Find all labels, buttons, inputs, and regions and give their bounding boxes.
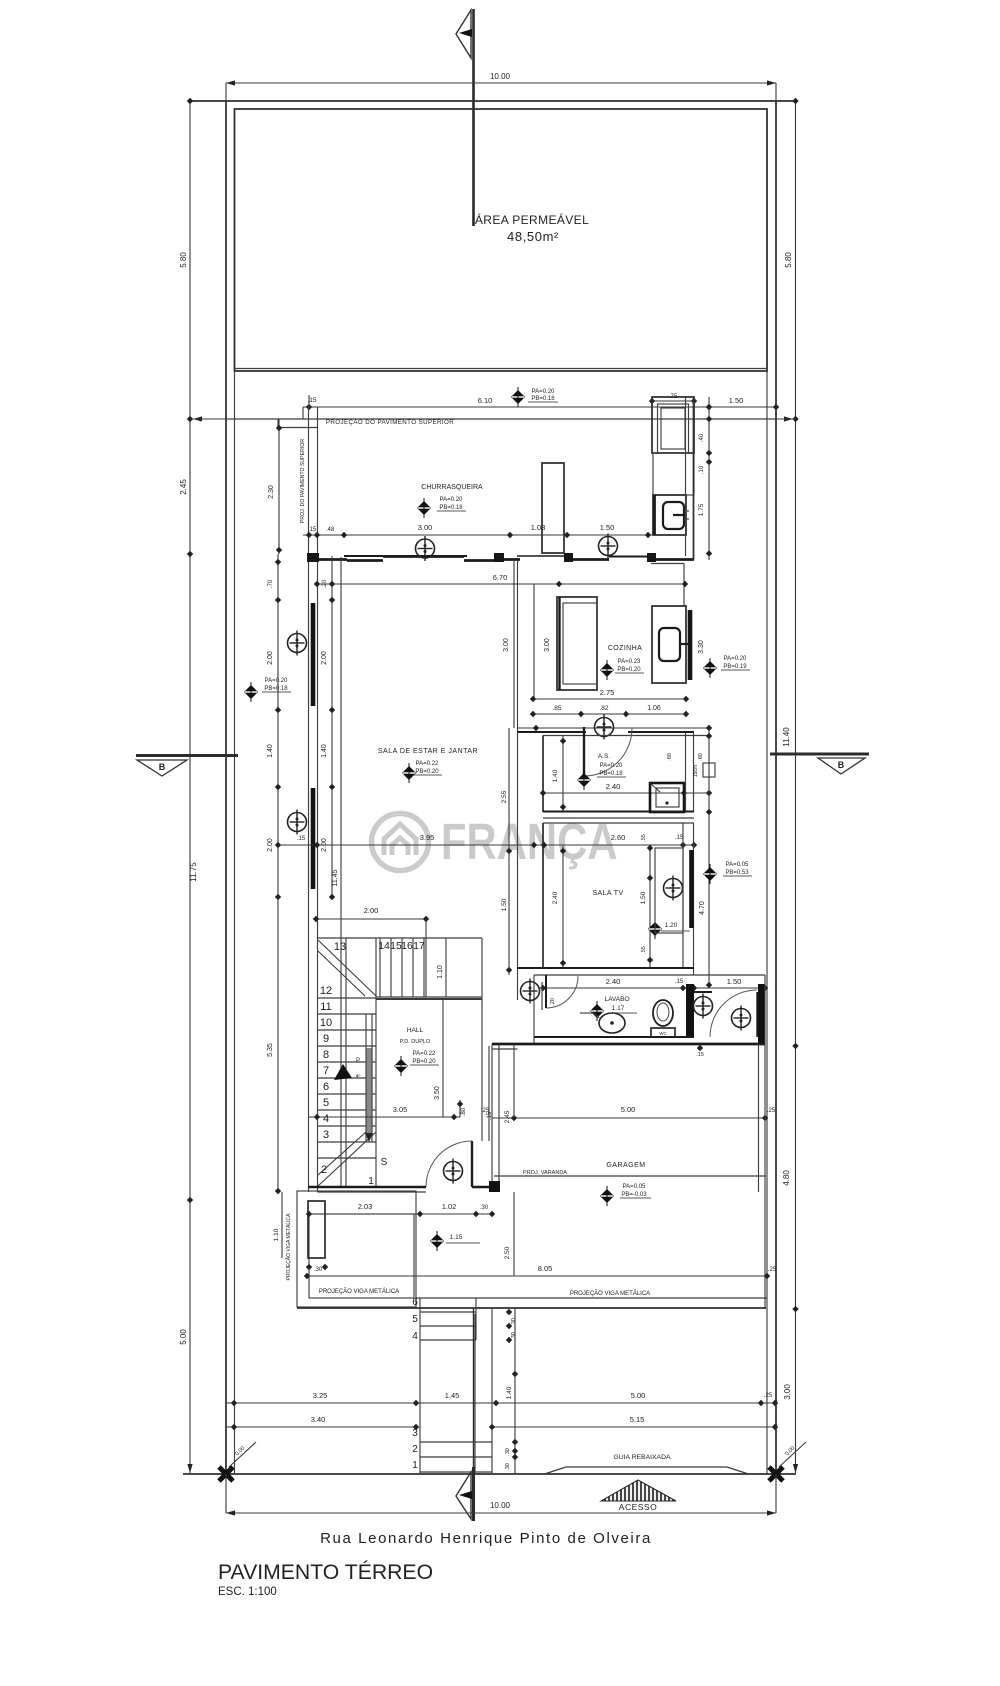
- top wall window sill: [344, 555, 467, 557]
- svg-text:2: 2: [412, 1444, 418, 1455]
- house left wall outer: [308, 560, 310, 1192]
- flag 1.15: [430, 1231, 444, 1251]
- svg-text:WC: WC: [659, 1031, 667, 1036]
- tv right wall: [682, 823, 684, 968]
- svg-text:.15: .15: [307, 397, 316, 404]
- flag tv floor: [648, 919, 662, 939]
- svg-text:GARAGEM: GARAGEM: [606, 1162, 645, 1169]
- property left edge: [225, 101, 227, 1474]
- flag PA top: [511, 387, 525, 407]
- svg-text:1.20: 1.20: [665, 922, 678, 929]
- driveway center line: [474, 1314, 476, 1473]
- svg-text:5.15: 5.15: [630, 1415, 645, 1424]
- flag cozinha: [600, 660, 614, 680]
- svg-text:.30: .30: [505, 1448, 511, 1456]
- garage pillar: [489, 1181, 500, 1192]
- svg-text:PB=0.18: PB=0.18: [439, 505, 463, 511]
- stair handrail: [367, 1048, 372, 1135]
- stair up arrow: [334, 1064, 352, 1080]
- svg-text:.10: .10: [699, 465, 705, 474]
- svg-text:3.95: 3.95: [420, 833, 435, 842]
- wall junction blobs: [307, 553, 319, 562]
- svg-text:3: 3: [323, 1129, 329, 1141]
- svg-text:FRANÇA: FRANÇA: [441, 813, 618, 870]
- stair right wall: [375, 938, 377, 1187]
- varanda inner rect: [309, 1214, 414, 1298]
- south arrow: [473, 1309, 475, 1521]
- svg-text:PA=0.23: PA=0.23: [618, 659, 641, 665]
- svg-text:.25: .25: [767, 1108, 776, 1114]
- flag PA right outside: [703, 658, 717, 678]
- dim 5.35 x278: [277, 897, 279, 1191]
- dim chain x332 mid: [331, 556, 333, 897]
- svg-text:2: 2: [321, 1164, 327, 1176]
- svg-text:PROJ. VARANDA: PROJ. VARANDA: [523, 1170, 567, 1176]
- dim 6.70 line: [317, 583, 685, 585]
- flag PA left outside: [244, 682, 258, 702]
- svg-text:3.00: 3.00: [783, 1384, 792, 1400]
- svg-text:Rua Leonardo Henrique Pinto: Rua Leonardo Henrique Pinto de Olveira: [320, 1530, 652, 1547]
- svg-text:11: 11: [320, 1001, 331, 1013]
- dim 11.45 vert: [340, 557, 342, 1187]
- right dim ticks: [792, 98, 798, 104]
- svg-text:5.35: 5.35: [267, 1043, 274, 1057]
- stair top line: [318, 937, 483, 939]
- ledge line left: [278, 427, 317, 429]
- property top edge: [190, 100, 796, 102]
- entry door leaf: [756, 992, 758, 1037]
- service lower room: [653, 495, 686, 535]
- entry right wall fill: [758, 984, 765, 1044]
- entry door arc: [710, 990, 757, 1037]
- top wall mid segment: [500, 558, 520, 561]
- house left wall inner: [317, 560, 319, 1192]
- svg-text:.80: .80: [461, 1107, 467, 1116]
- tv room top wall: [543, 822, 694, 824]
- svg-text:4º: 4º: [356, 1074, 361, 1080]
- varanda outer rect: [297, 1191, 416, 1307]
- dim row y535: [303, 534, 653, 536]
- svg-text:13: 13: [334, 941, 346, 953]
- hall top boundary: [376, 998, 482, 1000]
- svg-text:S: S: [381, 1157, 388, 1168]
- svg-text:3.00: 3.00: [544, 638, 551, 652]
- svg-text:6.70: 6.70: [493, 573, 508, 582]
- guia rebaixada trapezoid: [546, 1467, 747, 1474]
- svg-text:11.45: 11.45: [332, 869, 339, 886]
- svg-text:5.80: 5.80: [179, 252, 188, 268]
- property right edge: [775, 101, 777, 1474]
- svg-text:PROJEÇÃO DO PAVIMENTO SUPERIOR: PROJEÇÃO DO PAVIMENTO SUPERIOR: [326, 419, 454, 426]
- svg-text:1: 1: [412, 1460, 418, 1471]
- svg-text:5.80: 5.80: [784, 252, 793, 268]
- corner marker right: [769, 1467, 783, 1481]
- as right wall: [685, 732, 687, 812]
- flag lavabo: [590, 1001, 604, 1021]
- service room vessel: [661, 408, 685, 449]
- svg-text:17: 17: [413, 940, 425, 952]
- svg-text:P.D. DUPLO: P.D. DUPLO: [400, 1039, 431, 1045]
- as room top wall: [518, 731, 587, 733]
- svg-text:.85: .85: [552, 705, 561, 712]
- svg-text:.55: .55: [641, 946, 647, 954]
- svg-text:.25: .25: [764, 1393, 773, 1399]
- stair number column divider: [345, 938, 347, 1187]
- svg-text:4.80: 4.80: [782, 1170, 791, 1186]
- flag churrasqueira: [417, 498, 431, 518]
- svg-text:5: 5: [323, 1097, 329, 1109]
- svg-text:1.45: 1.45: [445, 1391, 460, 1400]
- svg-text:ESC. 1:100: ESC. 1:100: [218, 1586, 277, 1598]
- svg-text:9: 9: [323, 1033, 329, 1045]
- driveway edge lines: [491, 1309, 493, 1473]
- svg-text:1.17: 1.17: [612, 1005, 625, 1012]
- svg-text:2.75: 2.75: [600, 688, 615, 697]
- svg-text:2.00: 2.00: [364, 906, 379, 915]
- permeable area inner bottom: [235, 368, 768, 370]
- svg-text:4: 4: [412, 1331, 418, 1342]
- svg-text:3.25: 3.25: [313, 1391, 328, 1400]
- lavabo right wall fill: [686, 984, 694, 1037]
- dim row y714: [533, 713, 686, 715]
- svg-text:2.00: 2.00: [321, 651, 328, 665]
- tv window: [689, 850, 694, 928]
- svg-text:8.05: 8.05: [538, 1264, 553, 1273]
- svg-text:.25: .25: [768, 1267, 777, 1273]
- window marker circle top1: [416, 536, 435, 561]
- stair treads: [318, 997, 377, 999]
- svg-text:16: 16: [401, 940, 413, 952]
- dim .75 top: [652, 400, 694, 402]
- dim 10.00 top: [226, 72, 776, 101]
- svg-text:PROJEÇÃO VIGA METÁLICA: PROJEÇÃO VIGA METÁLICA: [319, 1288, 399, 1295]
- svg-text:11.40: 11.40: [782, 727, 791, 747]
- svg-text:.30: .30: [511, 1318, 517, 1326]
- svg-text:1.40: 1.40: [552, 769, 559, 782]
- svg-text:.30: .30: [480, 1205, 489, 1211]
- ext steps upper: [420, 1311, 476, 1313]
- svg-text:3: 3: [412, 1428, 418, 1439]
- svg-text:4: 4: [323, 1113, 329, 1125]
- dim .80 hall: [459, 1100, 461, 1117]
- svg-text:48,50m²: 48,50m²: [507, 229, 559, 244]
- svg-text:10.00: 10.00: [490, 72, 511, 81]
- svg-text:3.00: 3.00: [418, 523, 433, 532]
- lavabo door arc: [546, 976, 578, 1008]
- svg-text:2.00: 2.00: [267, 838, 274, 852]
- svg-text:4.70: 4.70: [699, 901, 706, 915]
- dim 3.00 cozinha: [533, 584, 535, 699]
- svg-text:1.10: 1.10: [437, 965, 444, 979]
- dim 8.05 row: [307, 1275, 767, 1277]
- inner fence right: [766, 109, 768, 1474]
- svg-text:B: B: [159, 762, 166, 772]
- dim 2.50 garage: [513, 1192, 515, 1276]
- service right wall: [685, 397, 687, 556]
- svg-text:1.40: 1.40: [267, 744, 274, 758]
- svg-text:HALL: HALL: [407, 1027, 424, 1034]
- dim row y728: [517, 727, 709, 729]
- svg-text:14: 14: [378, 940, 390, 952]
- svg-text:3.40: 3.40: [311, 1415, 326, 1424]
- churrasqueira chimney: [542, 463, 564, 553]
- dim 2.40 as row: [543, 792, 709, 794]
- service lower room wall: [653, 495, 656, 535]
- slab bottom line: [297, 1307, 766, 1309]
- dim 10.00 bottom: [226, 1512, 776, 1514]
- svg-text:2.40: 2.40: [552, 891, 559, 904]
- svg-text:10.00: 10.00: [490, 1501, 511, 1510]
- svg-text:PB=-0.03: PB=-0.03: [621, 1192, 647, 1198]
- svg-text:6: 6: [323, 1081, 329, 1093]
- lavabo left wall: [533, 975, 535, 1044]
- left window 2: [311, 788, 316, 889]
- svg-text:SALA DE ESTAR E JANTAR: SALA DE ESTAR E JANTAR: [378, 748, 478, 755]
- svg-text:PA=0.05: PA=0.05: [726, 862, 749, 868]
- service room inner: [658, 404, 689, 453]
- svg-text:1.10: 1.10: [273, 1228, 280, 1241]
- svg-text:1.50: 1.50: [727, 977, 742, 986]
- svg-text:1.50: 1.50: [501, 898, 508, 911]
- dim 2.00 stair: [316, 918, 426, 920]
- proj pavimento superior arrows: [193, 416, 202, 421]
- svg-text:10: 10: [320, 1017, 332, 1029]
- stair upper treads: [379, 938, 381, 997]
- stair lower diagonal: [318, 1132, 376, 1186]
- window marker circle top2: [599, 534, 618, 559]
- inner fence left: [234, 109, 236, 1474]
- svg-text:2.40: 2.40: [606, 782, 621, 791]
- kitchen sink counter: [652, 606, 686, 683]
- service room outer: [652, 397, 694, 453]
- flag PA tv outside: [703, 864, 717, 884]
- dim row y1214: [309, 1213, 492, 1215]
- dim chain 2.30 left: [278, 419, 280, 554]
- svg-text:1.40: 1.40: [506, 1386, 513, 1399]
- hall right wall upper: [481, 938, 483, 1001]
- svg-text:PB=0.18: PB=0.18: [531, 396, 555, 402]
- svg-text:.80: .80: [698, 753, 704, 761]
- as door arc: [584, 728, 632, 776]
- svg-text:12: 12: [320, 985, 332, 997]
- svg-text:PAVIMENTO TÉRREO: PAVIMENTO TÉRREO: [218, 1559, 433, 1584]
- svg-text:1.50: 1.50: [729, 396, 744, 405]
- left dim ticks: [187, 98, 193, 104]
- section marker B right: [770, 754, 869, 774]
- svg-text:1.40: 1.40: [321, 744, 328, 758]
- watermark logo: [372, 813, 618, 870]
- tv bottom wall: [518, 967, 695, 969]
- flag garagem: [600, 1186, 614, 1206]
- dim 1.50 x509: [508, 846, 510, 975]
- dim 2.40 tv: [562, 846, 564, 968]
- window marker hall door: [444, 1159, 463, 1184]
- dim 6.10 line: [303, 406, 709, 408]
- dim chain x709 top: [708, 397, 710, 560]
- dim 3.05 row: [309, 1116, 460, 1118]
- svg-text:2.00: 2.00: [267, 651, 274, 665]
- svg-text:PROJ. DO PAVIMENTO SUPERIOR: PROJ. DO PAVIMENTO SUPERIOR: [300, 439, 306, 523]
- dim 1.40 as: [562, 736, 564, 812]
- service room bottom sill: [651, 563, 684, 565]
- dim 2.55 x509: [508, 728, 510, 846]
- corner marker left: [219, 1467, 233, 1481]
- proj varanda line: [494, 1175, 766, 1177]
- svg-text:PA=0.22: PA=0.22: [413, 1051, 436, 1057]
- svg-text:.82: .82: [599, 705, 608, 712]
- svg-text:PA=0.20: PA=0.20: [724, 656, 747, 662]
- flag sala: [402, 763, 416, 783]
- svg-text:5.00: 5.00: [179, 1329, 188, 1345]
- svg-text:PB=0.18: PB=0.18: [599, 771, 623, 777]
- tv room left wall: [542, 823, 544, 968]
- svg-text:ACESSO: ACESSO: [619, 1502, 657, 1512]
- dim 1.10 front: [281, 1192, 283, 1258]
- svg-text:1.50: 1.50: [640, 891, 647, 904]
- garage right wall: [758, 1044, 760, 1192]
- svg-text:5.00: 5.00: [631, 1391, 646, 1400]
- svg-text:.48: .48: [326, 527, 335, 533]
- svg-text:1: 1: [368, 1176, 374, 1187]
- dim 1.10 stair: [445, 938, 447, 997]
- as room left wall: [542, 736, 544, 813]
- permeable area rect: [235, 109, 768, 371]
- as bottom wall: [543, 811, 694, 813]
- svg-text:6.10: 6.10: [478, 396, 493, 405]
- entry top wall: [694, 991, 712, 993]
- proj pavimento superior line: [226, 418, 776, 420]
- kitchen counter: [557, 597, 597, 690]
- as door leaf: [583, 727, 585, 777]
- svg-text:.15: .15: [696, 1052, 704, 1058]
- svg-text:1.02: 1.02: [442, 1202, 457, 1211]
- svg-text:3.05: 3.05: [393, 1105, 408, 1114]
- svg-text:PROJEÇÃO VIGA METÁLICA: PROJEÇÃO VIGA METÁLICA: [570, 1290, 650, 1297]
- dim 2.45 garage: [513, 1044, 515, 1118]
- svg-text:.15: .15: [297, 836, 306, 842]
- svg-text:COZINHA: COZINHA: [608, 645, 642, 652]
- svg-text:1.08: 1.08: [531, 523, 546, 532]
- svg-text:3.30: 3.30: [698, 640, 705, 654]
- svg-text:GUIA REBAIXADA: GUIA REBAIXADA: [613, 1454, 671, 1461]
- top wall left segment: [317, 558, 347, 561]
- svg-text:2.30: 2.30: [268, 485, 275, 499]
- top wall right segment: [569, 558, 609, 561]
- svg-text:2.03: 2.03: [358, 1202, 373, 1211]
- entry walls thin: [764, 975, 766, 1044]
- svg-text:2.45: 2.45: [504, 1110, 511, 1123]
- viga pillar: [308, 1201, 325, 1258]
- right dim chain line: [795, 101, 797, 1473]
- tv bench: [655, 848, 683, 933]
- dim chain x278 mid: [277, 554, 279, 897]
- dim 1.50 top right: [709, 406, 776, 408]
- service compartment: [653, 453, 694, 495]
- svg-text:PA=0.20: PA=0.20: [265, 678, 288, 684]
- svg-text:.30: .30: [511, 1332, 517, 1340]
- svg-text:LAVABO: LAVABO: [604, 996, 629, 1003]
- kitchen window: [688, 610, 693, 680]
- svg-text:1.06: 1.06: [647, 705, 661, 712]
- svg-text:.30: .30: [314, 1267, 323, 1273]
- svg-text:CHURRASQUEIRA: CHURRASQUEIRA: [421, 484, 483, 491]
- proj viga line: [416, 1297, 767, 1299]
- svg-text:PB=0.19: PB=0.19: [723, 664, 747, 670]
- svg-text:.70: .70: [268, 579, 274, 588]
- svg-text:2.45: 2.45: [179, 479, 188, 495]
- left dim chain line: [189, 101, 191, 1473]
- property bottom edge: [183, 1473, 796, 1475]
- ext steps lower: [420, 1441, 492, 1443]
- ext steps lower ticks: [512, 1439, 518, 1445]
- svg-text:2.60: 2.60: [611, 833, 626, 842]
- svg-text:PA=0.22: PA=0.22: [416, 761, 439, 767]
- svg-text:PB=0.20: PB=0.20: [617, 667, 641, 673]
- garage top wall: [492, 1043, 765, 1046]
- dim y845 left stub: [278, 844, 308, 846]
- laundry tank: [650, 783, 684, 812]
- window marker as door: [595, 715, 614, 740]
- svg-text:1.75: 1.75: [698, 503, 705, 516]
- sala right wall: [513, 560, 515, 728]
- svg-text:6: 6: [412, 1297, 418, 1308]
- dim chain tv window: [649, 846, 651, 968]
- svg-text:PB=0.20: PB=0.20: [412, 1059, 436, 1065]
- water tank fixture: [663, 502, 684, 529]
- svg-text:5: 5: [412, 1314, 418, 1325]
- svg-text:.80: .80: [667, 753, 673, 761]
- svg-text:PROJEÇÃO VIGA METÁLICA: PROJEÇÃO VIGA METÁLICA: [285, 1213, 292, 1281]
- svg-text:PA=0.20: PA=0.20: [600, 763, 623, 769]
- stair break diagonal: [318, 940, 376, 996]
- window marker left1: [288, 631, 307, 656]
- hall bottom wall: [309, 1186, 427, 1189]
- svg-text:3.00: 3.00: [503, 638, 510, 652]
- washbasin: [599, 1013, 625, 1033]
- svg-text:PB=0.18: PB=0.18: [264, 686, 288, 692]
- dim row y988 lavabo: [543, 987, 765, 989]
- north arrow: [456, 9, 474, 226]
- svg-text:.30: .30: [505, 1463, 511, 1471]
- svg-text:.40: .40: [699, 433, 705, 442]
- left window 1: [311, 603, 316, 706]
- hall right wall: [481, 999, 483, 1141]
- svg-text:11.75: 11.75: [189, 862, 198, 882]
- hall door arc: [426, 1141, 472, 1187]
- dim ticks below lavabo: [694, 1043, 709, 1045]
- svg-text:.20: .20: [550, 998, 556, 1006]
- dim chain x709 mid: [708, 728, 710, 988]
- svg-text:ÁREA PERMEÁVEL: ÁREA PERMEÁVEL: [475, 212, 589, 227]
- window marker lavabo: [521, 979, 540, 1004]
- dim row y1403: [226, 1402, 775, 1404]
- kitchen sink: [659, 628, 680, 661]
- dim 5.00 garage row: [492, 1117, 765, 1119]
- svg-text:B: B: [838, 760, 845, 770]
- window marker left2: [288, 810, 307, 835]
- svg-text:7: 7: [323, 1065, 329, 1077]
- svg-text:PA=0.05: PA=0.05: [623, 1184, 646, 1190]
- lavabo bottom wall: [534, 1036, 694, 1038]
- svg-text:2.50: 2.50: [504, 1246, 511, 1259]
- garage left wall: [491, 1044, 493, 1187]
- wall proj column: [308, 407, 310, 560]
- svg-text:P: P: [356, 1058, 360, 1064]
- svg-text:A.S.: A.S.: [598, 753, 610, 760]
- svg-text:SALA TV: SALA TV: [592, 890, 623, 897]
- svg-text:5.00: 5.00: [621, 1105, 636, 1114]
- svg-text:1.15: 1.15: [450, 1234, 463, 1241]
